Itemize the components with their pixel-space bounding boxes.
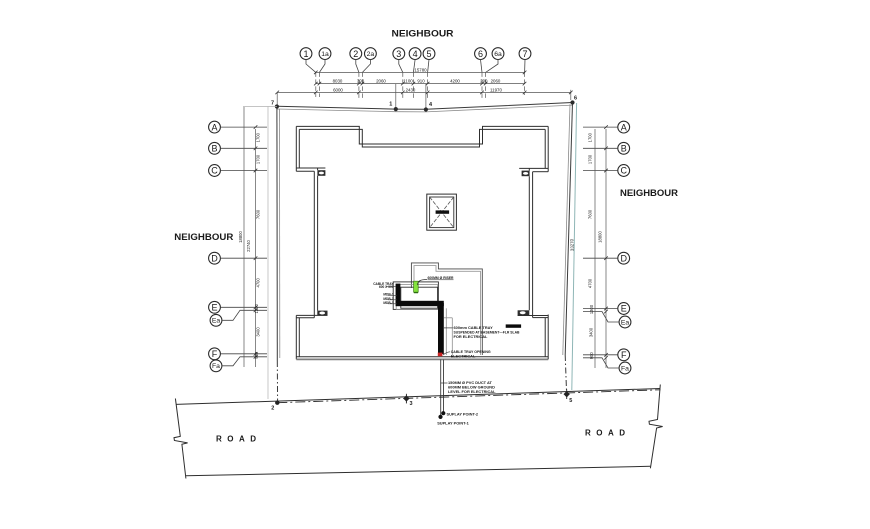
dim line 15780 (277, 72, 571, 109)
svg-text:5: 5 (426, 49, 431, 59)
svg-text:6: 6 (478, 49, 483, 59)
svg-text:ELECTRICAL: ELECTRICAL (451, 353, 476, 358)
building left wall bottom inner (298, 318, 300, 357)
grid bubble B left (209, 142, 221, 154)
svg-text:Fa: Fa (212, 363, 220, 370)
extension line light vertical at 268 (267, 107, 269, 400)
svg-text:2: 2 (271, 406, 274, 412)
opening note (451, 349, 491, 359)
svg-text:A: A (621, 122, 627, 132)
shaft inner rect (430, 197, 454, 228)
left dim verticals (244, 107, 256, 367)
svg-text:1300: 1300 (254, 303, 259, 313)
grid bubble F left (209, 348, 221, 360)
dim line 33270 teal (569, 103, 576, 390)
building right wall bottom inner (544, 318, 546, 357)
svg-text:B: B (621, 144, 627, 154)
svg-text:NEIGHBOUR: NEIGHBOUR (620, 188, 678, 199)
svg-text:1: 1 (303, 49, 308, 59)
svg-text:7: 7 (271, 101, 274, 107)
left equipment labels (373, 282, 394, 305)
svg-text:SUPLAY POINT-2: SUPLAY POINT-2 (447, 412, 479, 417)
svg-text:1700: 1700 (256, 132, 261, 142)
svg-text:6: 6 (574, 96, 577, 102)
svg-text:MDB-3: MDB-3 (383, 301, 393, 305)
svg-text:4700: 4700 (256, 277, 261, 287)
grid bubble C left (209, 165, 221, 177)
site boundary left double line (277, 106, 280, 402)
bubble leaders (306, 60, 525, 73)
right dim texts rotated (588, 132, 603, 359)
node 5 diamond (564, 389, 573, 403)
node 3 diamond (403, 394, 412, 407)
grid bubble E right (618, 303, 630, 315)
building left wall upper outer (295, 126, 297, 171)
svg-text:15780: 15780 (414, 68, 427, 73)
pvc note leader (441, 382, 448, 384)
left leaders (221, 127, 268, 366)
node 1 (389, 102, 398, 112)
building right wall bottom outer (547, 315, 549, 360)
svg-text:1700: 1700 (256, 154, 261, 164)
grid bubble D left (209, 252, 221, 264)
svg-text:900: 900 (254, 351, 259, 359)
svg-text:ROAD: ROAD (216, 435, 262, 444)
electrical room mid rect (396, 285, 438, 310)
svg-text:D: D (211, 253, 218, 263)
extension stub at top-left corner (243, 106, 277, 108)
svg-text:18800: 18800 (238, 231, 243, 243)
opening note leader (443, 352, 450, 355)
svg-text:B: B (211, 144, 217, 154)
svg-text:33270: 33270 (569, 238, 574, 251)
svg-text:4200: 4200 (450, 79, 460, 84)
shaft outer rect (427, 194, 457, 230)
cable tray note leader (444, 327, 453, 329)
node 4 (424, 102, 433, 112)
site boundary top double line (277, 103, 573, 112)
svg-text:NEIGHBOUR: NEIGHBOUR (174, 232, 233, 243)
svg-text:200: 200 (480, 79, 488, 84)
right dim verticals (595, 129, 606, 368)
supply point 1 (437, 415, 469, 426)
grid bubble 3 (393, 48, 405, 60)
BUBBLES-RIGHT (569, 103, 631, 390)
svg-text:2: 2 (353, 49, 358, 59)
left lower jog lines (296, 314, 327, 316)
duct lines below building (441, 360, 444, 417)
svg-text:F: F (212, 349, 218, 359)
svg-text:ROAD: ROAD (585, 429, 631, 438)
svg-text:2430: 2430 (406, 87, 416, 92)
building top wall inner line with notch (299, 129, 545, 147)
equipment leader ticks (386, 286, 397, 304)
svg-text:C: C (211, 166, 218, 176)
electrical room outer rect (393, 282, 438, 310)
DIMS-TOP (275, 68, 572, 110)
building top wall outer line with notch (296, 126, 548, 144)
grid bubble B right (618, 142, 630, 154)
SITE-BOUNDARY (243, 96, 577, 403)
grid bubble D right (618, 252, 630, 264)
svg-text:Ea: Ea (212, 318, 221, 325)
grid bubble 2a (365, 48, 377, 60)
ELECTRICAL (373, 263, 521, 426)
property dash-dot line (277, 390, 660, 403)
building left wall bottom outer (295, 315, 297, 359)
TEXTS (174, 29, 678, 244)
svg-text:1a: 1a (321, 51, 329, 58)
red opening mark (438, 353, 443, 357)
left dim texts rotated (238, 132, 261, 358)
column marker right lower (518, 310, 530, 315)
svg-text:Fa: Fa (621, 365, 629, 372)
svg-text:7: 7 (522, 49, 527, 59)
grid bubble 6 (475, 48, 487, 60)
legend black bar (506, 324, 521, 327)
grid bubble Ea left (210, 314, 222, 326)
GRID-BUBBLES-TOP (300, 48, 531, 73)
right leaders (583, 127, 619, 368)
building right wall upper outer (547, 126, 549, 171)
shaft diagonal X (430, 197, 454, 228)
supply point 2 (441, 411, 479, 417)
right upper jog lines (519, 167, 548, 169)
svg-text:6a: 6a (494, 51, 502, 58)
svg-text:1100: 1100 (403, 79, 413, 84)
grid bubble 4 (409, 48, 421, 60)
grid bubble Ea right (619, 316, 631, 328)
building left wall lower verticals (313, 171, 315, 317)
grid bubble E left (209, 301, 221, 313)
cable tray note (454, 325, 520, 339)
svg-text:6000: 6000 (333, 87, 343, 92)
svg-text:5: 5 (569, 398, 572, 404)
building bottom wall (296, 356, 548, 358)
site boundary right double line (563, 103, 573, 394)
svg-text:2060: 2060 (376, 79, 386, 84)
corridor outline double (411, 263, 482, 355)
svg-text:SUPLAY POINT-1: SUPLAY POINT-1 (437, 420, 469, 425)
svg-text:3400: 3400 (589, 327, 594, 337)
svg-text:1700: 1700 (588, 154, 593, 164)
svg-text:1300: 1300 (589, 304, 594, 314)
left upper jog lines (296, 167, 325, 169)
column marker left lower (317, 311, 327, 316)
column marker left upper (317, 170, 325, 176)
svg-text:FOR ELECTRICAL: FOR ELECTRICAL (454, 334, 489, 339)
column marker right upper (522, 171, 530, 177)
grid bubble 5 (423, 48, 435, 60)
tray side thin lines (444, 308, 452, 355)
svg-text:8030: 8030 (333, 79, 343, 84)
svg-text:900: 900 (589, 352, 594, 360)
grid bubble Fa left (210, 360, 222, 372)
svg-text:910: 910 (417, 79, 425, 84)
building right wall upper inner (544, 129, 546, 168)
svg-text:3400: 3400 (256, 327, 261, 337)
svg-text:1700: 1700 (588, 132, 593, 142)
svg-text:D: D (620, 253, 627, 263)
green riser duct (414, 281, 419, 292)
svg-text:2a: 2a (367, 51, 375, 58)
road right end line with break (649, 385, 663, 469)
svg-text:E: E (211, 303, 217, 313)
SHAFT (427, 194, 457, 230)
svg-text:F: F (621, 350, 627, 360)
right dim ticks (604, 125, 608, 359)
svg-text:4700: 4700 (588, 278, 593, 288)
cable tray vertical run down (438, 303, 444, 354)
svg-text:4: 4 (413, 49, 418, 59)
BUBBLES-LEFT (209, 107, 267, 372)
svg-text:MDB-1: MDB-1 (383, 293, 393, 297)
svg-text:18800: 18800 (598, 231, 603, 243)
shaft black bar (436, 210, 450, 213)
pvc duct note (448, 380, 496, 394)
grid extension dashed verticals (316, 72, 525, 99)
svg-text:600 X 300: 600 X 300 (379, 285, 394, 289)
grid bubble 2 (350, 48, 362, 60)
svg-text:7600: 7600 (256, 209, 261, 219)
ROAD (174, 385, 663, 479)
svg-text:3: 3 (396, 49, 401, 59)
left dim ticks (254, 125, 258, 358)
building left wall upper inner (298, 129, 300, 168)
svg-text:Ea: Ea (621, 319, 630, 326)
svg-text:7600: 7600 (588, 209, 593, 219)
svg-text:1: 1 (389, 102, 392, 108)
BUILDING (296, 126, 548, 359)
corner node 6 (570, 96, 577, 105)
svg-text:3: 3 (409, 401, 412, 407)
grid bubble 7 (519, 48, 531, 60)
svg-text:600MM Ø RISER: 600MM Ø RISER (428, 275, 454, 280)
cable tray vertical stub left (396, 284, 401, 303)
grid bubble 6a (492, 48, 504, 60)
svg-text:NEIGHBOUR: NEIGHBOUR (392, 29, 454, 40)
grid bubble A left (209, 121, 221, 133)
cable tray horizontal run (396, 301, 444, 306)
dim ticks (275, 71, 572, 95)
grid bubble 1 (300, 48, 312, 60)
corner node 7 (271, 101, 279, 109)
node 2 dot (271, 401, 279, 412)
road top edge (176, 389, 660, 405)
road left end line with break (174, 399, 188, 479)
electrical room inner rect (401, 287, 438, 308)
svg-text:22740: 22740 (246, 240, 251, 252)
svg-text:300: 300 (357, 79, 365, 84)
grid bubble Fa right (619, 362, 631, 374)
building right wall lower verticals (532, 172, 534, 318)
road bottom edge (186, 466, 651, 476)
svg-text:A: A (211, 122, 217, 132)
svg-text:C: C (620, 166, 627, 176)
grid bubble 1a (319, 48, 331, 60)
grid bubble F right (618, 349, 630, 361)
green riser leader (418, 280, 428, 286)
grid bubble C right (618, 165, 630, 177)
dim texts row1 (333, 68, 503, 93)
svg-text:2060: 2060 (491, 79, 501, 84)
grid bubble A right (618, 121, 630, 133)
svg-text:11970: 11970 (490, 87, 502, 92)
right lower jog lines (518, 315, 549, 317)
svg-text:LEVEL FOR ELECTRICAL: LEVEL FOR ELECTRICAL (448, 389, 496, 394)
svg-text:E: E (621, 304, 627, 314)
